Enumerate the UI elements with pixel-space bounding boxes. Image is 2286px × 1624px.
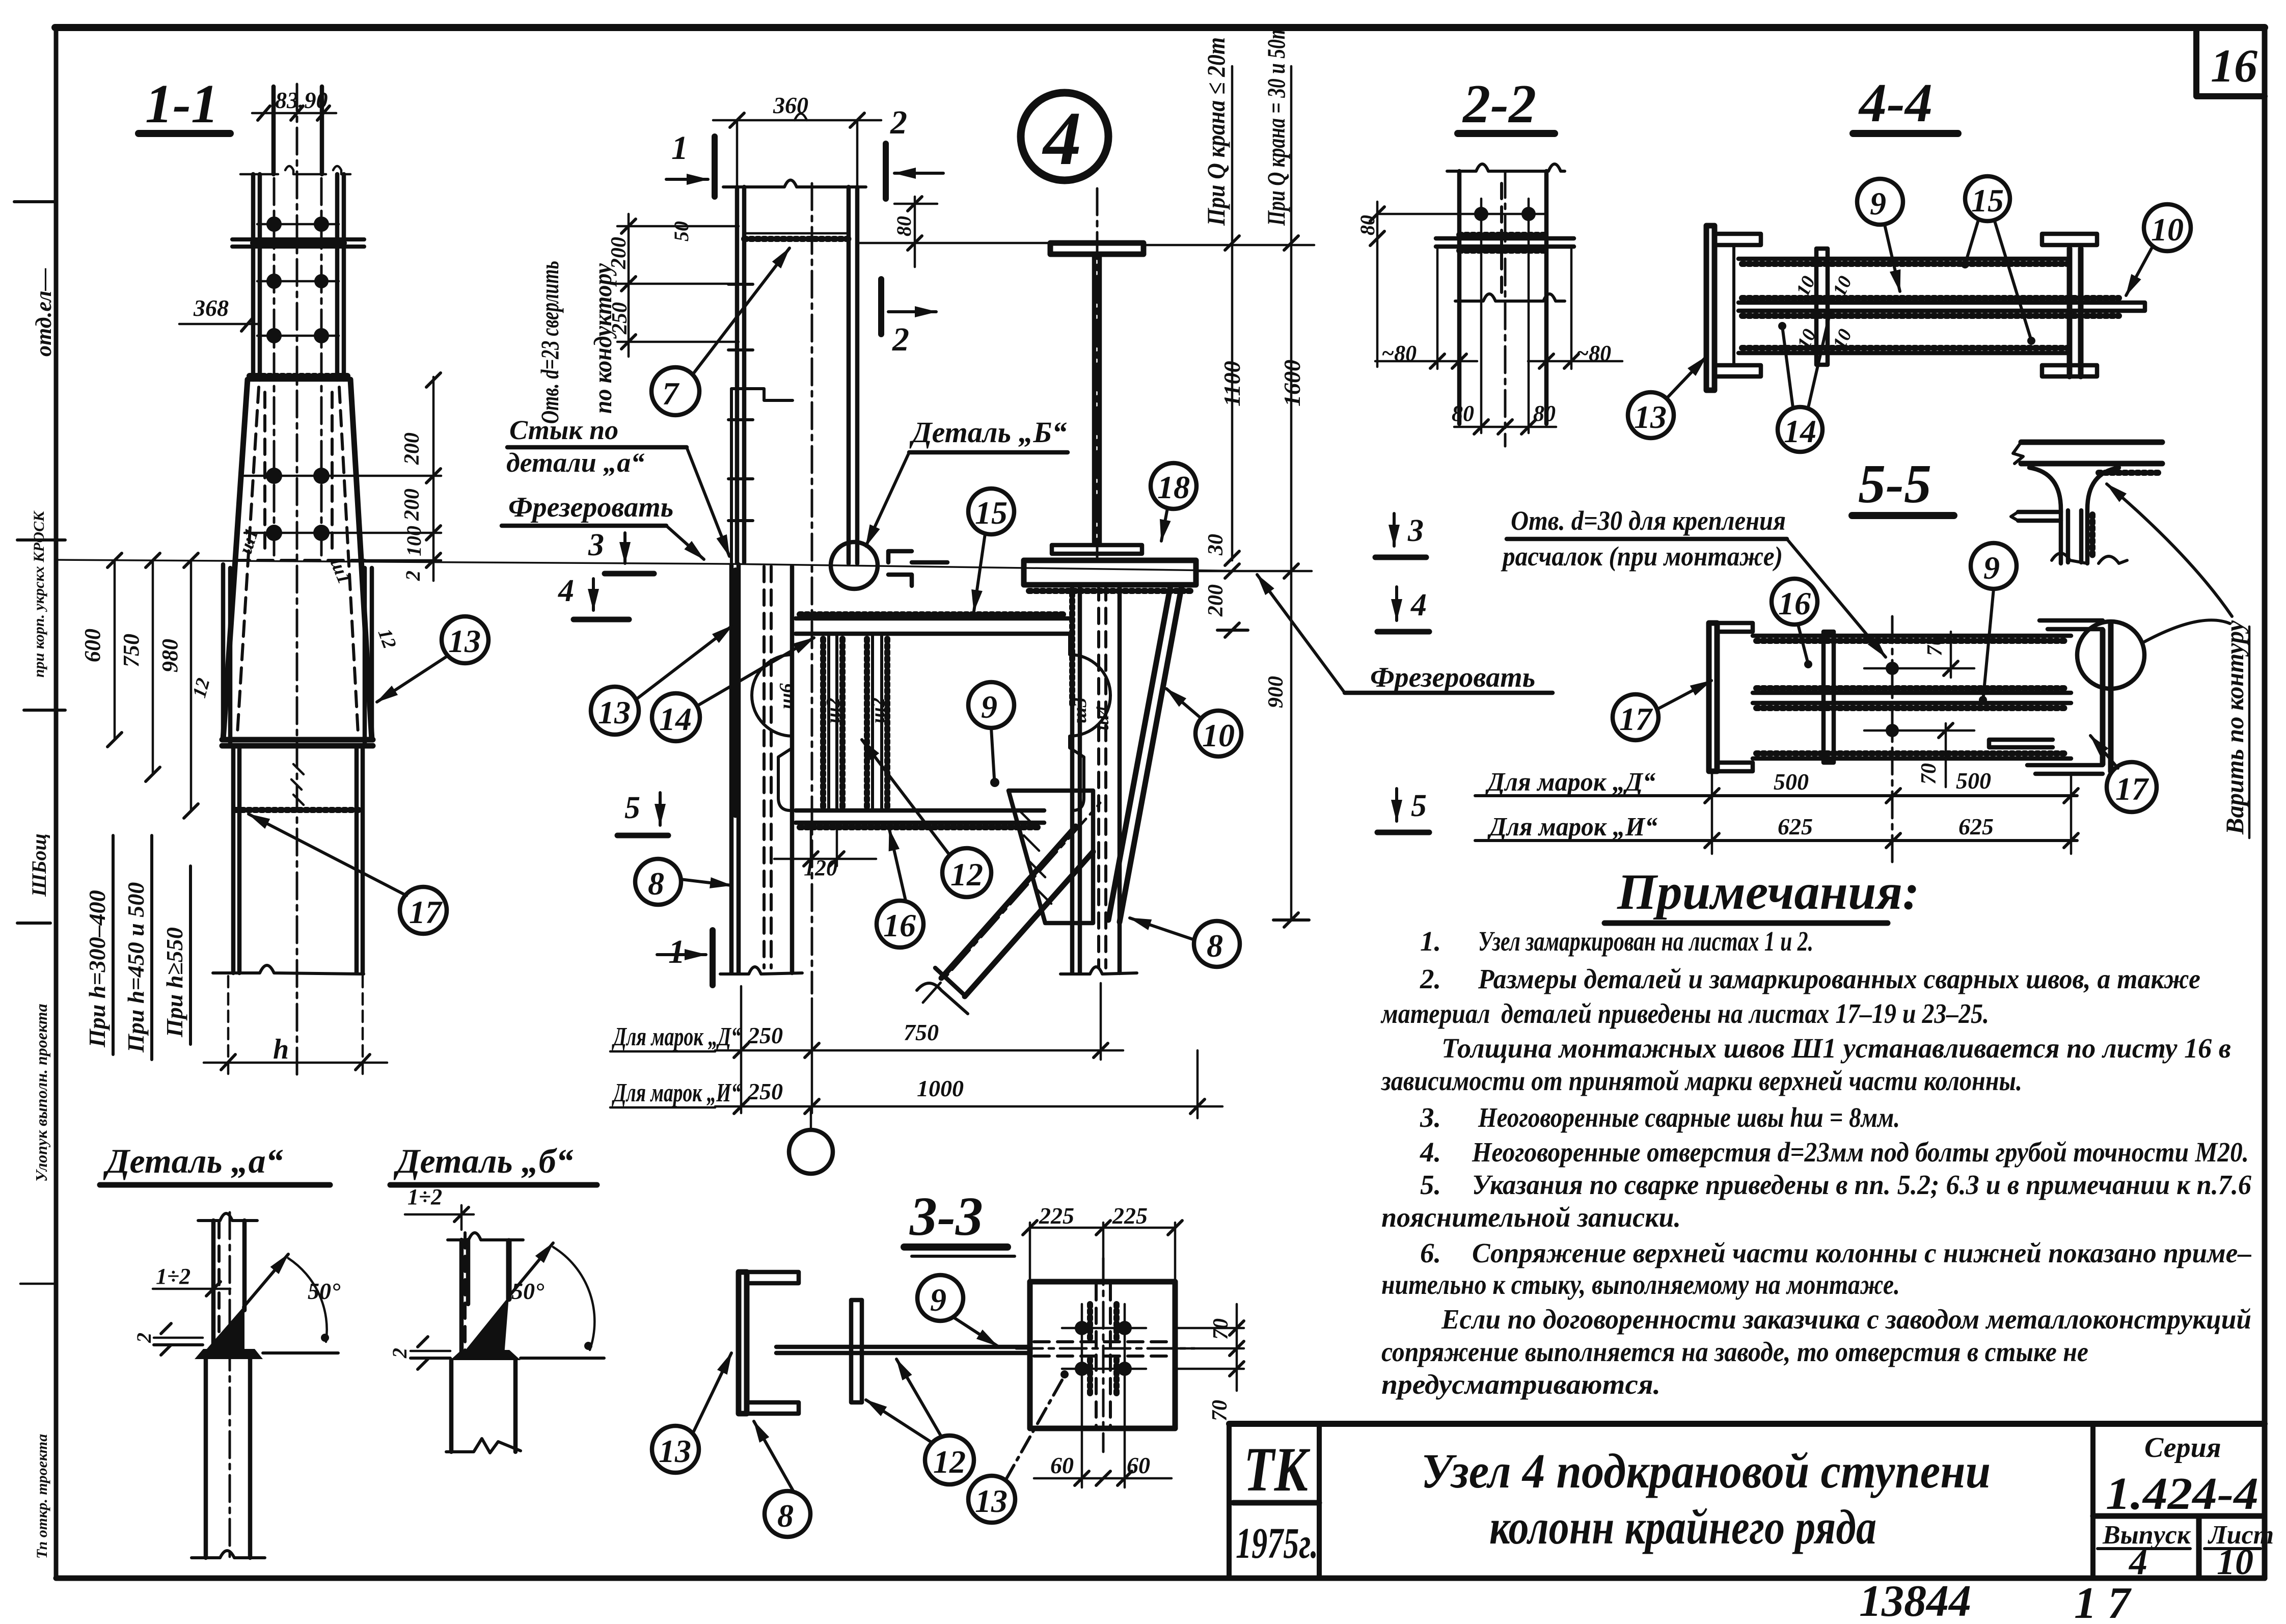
weld under cap plate [1029, 588, 1192, 594]
squiggle on 360 dim [795, 114, 807, 120]
splice weld on left column [744, 236, 849, 242]
gridline crane Q=30/50 [1290, 66, 1293, 920]
callout circle 13 (taper flange) [442, 616, 488, 663]
detail B surface line [411, 1357, 604, 1360]
callout circle 17 left [1613, 694, 1658, 740]
left column bottom flange stub [1715, 365, 1761, 376]
upper beam centerline [1096, 188, 1099, 560]
svg-text:1.: 1. [1420, 926, 1441, 957]
svg-text:h: h [273, 1034, 289, 1065]
callout circle 16 [1772, 579, 1817, 625]
svg-text:80: 80 [1356, 215, 1379, 235]
svg-text:Указания по сварке привед: Указания по сварке приведены в пп. 5.2; … [1472, 1169, 2251, 1200]
stiffener 1 pair [829, 634, 837, 810]
weld below middle plate [1742, 313, 2119, 319]
svg-text:80: 80 [892, 216, 915, 236]
otv label underline [1507, 537, 1787, 542]
svg-text:При Q крана ≤ 20т: При Q крана ≤ 20т [1202, 37, 1230, 226]
svg-text:625: 625 [1778, 814, 1813, 840]
svg-text:200: 200 [607, 237, 631, 269]
dim ticks 83,90 [258, 106, 330, 120]
dim line 750 [152, 560, 154, 774]
beam middle double line [1753, 693, 2071, 703]
svg-text:250: 250 [608, 302, 632, 335]
svg-text:80: 80 [1452, 401, 1474, 426]
svg-text:Узел 4 подкрановой ступени: Узел 4 подкрановой ступени [1421, 1444, 1991, 1498]
left column centerline [811, 183, 813, 993]
callout circle 15 [1965, 176, 2010, 221]
upper column stub flange right [320, 87, 324, 174]
section 4-4 underline [1853, 130, 1958, 137]
margin tick 4 [17, 922, 50, 925]
lower left column flange pair [731, 564, 739, 973]
row 1 ticks [734, 1043, 1108, 1058]
hatch marks above weld [291, 764, 304, 805]
weld marks on splice plate [253, 240, 344, 246]
callout circle 8 right [1194, 921, 1240, 967]
right dim chain 200/200/100/2 extension lines [357, 476, 441, 560]
svg-text:4: 4 [558, 574, 574, 608]
lower part outer right double [365, 568, 372, 744]
svg-text:1÷2: 1÷2 [407, 1184, 442, 1209]
taper right inner dashed [339, 387, 358, 734]
svg-text:ШБощ: ШБощ [28, 833, 50, 897]
plate 18 thin [1052, 545, 1142, 554]
svg-text:Деталь „б“: Деталь „б“ [393, 1142, 574, 1180]
section 5-5 underline [1852, 512, 1954, 519]
left column top cap with break [723, 180, 866, 187]
bolt row 5 [266, 525, 282, 541]
weld splice 17 on shaft [235, 807, 361, 813]
svg-text:4: 4 [2128, 1541, 2147, 1582]
TK box outer [1229, 1424, 1319, 1578]
svg-text:При h≥550: При h≥550 [161, 927, 187, 1038]
svg-text:2.: 2. [1420, 963, 1441, 994]
table row 1 line [1475, 794, 2077, 797]
diagonal brace lines [941, 826, 1093, 996]
svg-text:50: 50 [670, 221, 693, 241]
ticks 60 [1075, 1471, 1132, 1485]
break line top of splice [240, 166, 350, 174]
cap level line to gridlines [1196, 570, 1312, 573]
svg-text:17: 17 [2115, 771, 2149, 807]
vertical web right with fillet [2081, 468, 2119, 563]
bolt grid lines [1062, 1304, 1146, 1487]
seria row divider [2093, 1513, 2265, 1519]
lower shaft right double [357, 746, 363, 973]
svg-text:250: 250 [747, 1022, 783, 1048]
lower right column web dashed [1099, 585, 1106, 968]
dim h extension right [362, 976, 364, 1075]
svg-text:отд.ел—: отд.ел— [31, 268, 56, 357]
svg-text:Тп откр. троекта: Тп откр. троекта [34, 1434, 50, 1559]
svg-text:70: 70 [1923, 635, 1947, 656]
svg-text:Отв. d=30 для крепления: Отв. d=30 для крепления [1511, 505, 1786, 536]
callout circle 8 left [635, 859, 681, 905]
svg-text:Толщина монтажных швов Ш1: Толщина монтажных швов Ш1 устанавливаетс… [1441, 1033, 2231, 1064]
beam top flange [796, 618, 1070, 634]
svg-text:Серия: Серия [2144, 1432, 2221, 1464]
base plate square [1030, 1282, 1175, 1428]
svg-text:1: 1 [668, 933, 685, 970]
dim line 225/225 [1030, 1223, 1175, 1282]
top plate double line [2021, 442, 2162, 464]
callout circle 12 [925, 1436, 974, 1484]
unfinished callout circle [789, 1130, 833, 1174]
svg-text:по кондуктору: по кондуктору [588, 263, 617, 414]
svg-text:колонн крайнего ряда: колонн крайнего ряда [1489, 1500, 1876, 1554]
svg-text:8: 8 [648, 865, 664, 902]
node cap plate [1024, 560, 1196, 585]
upper column stub centerline [296, 84, 298, 1080]
right lower tab [1989, 740, 2053, 747]
svg-text:980: 980 [157, 639, 182, 672]
svg-text:Неоговоренные отверстия d=23: Неоговоренные отверстия d=23мм под болты… [1472, 1136, 2249, 1168]
svg-text:60: 60 [1050, 1452, 1074, 1478]
weld under top edge [1742, 261, 2067, 267]
dim line 368 [179, 323, 260, 326]
svg-text:2: 2 [132, 1333, 155, 1343]
left column top flange stub [1715, 234, 1761, 245]
left channel flange [1709, 623, 1717, 771]
beam top edge [1753, 634, 2071, 638]
svg-text:368: 368 [193, 295, 229, 321]
svg-text:250: 250 [747, 1078, 783, 1104]
svg-text:зависимости от принятой мар: зависимости от принятой марки верхней ча… [1380, 1065, 2022, 1096]
weld below beam bottom flange [800, 824, 1042, 830]
svg-text:13: 13 [1634, 399, 1667, 435]
left channel top stub [1717, 623, 1753, 632]
right column top flange stub [2042, 234, 2097, 245]
svg-text:70: 70 [1208, 1400, 1232, 1421]
weld on lower right column [1069, 593, 1075, 708]
svg-text:Для марок „Д“: Для марок „Д“ [612, 1022, 741, 1051]
callout circle 12 main [942, 848, 991, 897]
svg-text:Стык по: Стык по [509, 415, 618, 445]
svg-text:Улопук выполн. проекта: Улопук выполн. проекта [32, 1004, 50, 1182]
bolt left [1474, 207, 1488, 221]
callout circle 9 [1857, 179, 1903, 225]
svg-text:Сопряжение верхней части: Сопряжение верхней части колонны с нижне… [1472, 1237, 2251, 1268]
svg-text:900: 900 [1264, 676, 1288, 708]
detail A surface line [154, 1345, 338, 1353]
beam bottom edge [1753, 756, 2071, 761]
left flange line [1457, 171, 1462, 424]
svg-text:200: 200 [1204, 584, 1228, 617]
milled joint line across sheet [57, 560, 728, 564]
bolt row 3 [266, 328, 282, 343]
left column inner flange pair [849, 187, 857, 563]
dim tick 368 [241, 317, 254, 331]
upper beam web pair [1094, 254, 1100, 545]
callout circle 15 [968, 489, 1014, 534]
svg-text:70: 70 [1917, 763, 1941, 784]
svg-text:4: 4 [1042, 96, 1081, 181]
callout circle 17 (shaft weld) [400, 887, 447, 934]
weld above bottom edge [1756, 750, 2068, 756]
svg-text:13: 13 [598, 694, 631, 730]
taper left side [223, 380, 248, 740]
callout circle 7 [651, 367, 699, 415]
svg-text:225: 225 [1112, 1203, 1148, 1229]
right channel flange [2103, 624, 2111, 771]
left dims 200/250 chain line [617, 214, 739, 357]
svg-text:8: 8 [1207, 928, 1223, 964]
bottom break squiggles [2052, 553, 2127, 563]
svg-text:750: 750 [904, 1019, 939, 1045]
svg-text:2: 2 [890, 104, 907, 141]
rivet ticks on left column [728, 284, 753, 521]
ticks 30 dim [1225, 551, 1239, 578]
sheet border right [2262, 28, 2268, 1578]
svg-text:При h=450 и 500: При h=450 и 500 [123, 882, 149, 1053]
callout circle 13 [1628, 392, 1674, 438]
svg-text:70: 70 [1209, 1318, 1233, 1340]
bottom dim row 1 line [715, 1049, 1123, 1052]
brace end break [917, 983, 968, 1014]
upper column stub flange left [271, 87, 276, 174]
section 3-3 underline [904, 1243, 1008, 1251]
svg-text:5: 5 [1411, 789, 1427, 823]
right column flange plate [2070, 249, 2081, 376]
ticks 200/250 chain [621, 219, 636, 349]
callout circle 13 [968, 1476, 1015, 1523]
column bottom break line [213, 965, 364, 974]
vypusk/list divider [2196, 1516, 2202, 1578]
svg-text:10: 10 [2217, 1541, 2253, 1582]
dim line h [204, 1062, 387, 1064]
detail A angle arc [288, 1258, 327, 1342]
detail B bottom break [446, 1439, 521, 1453]
lower left column web dashed [764, 566, 771, 968]
detail A lower plate [206, 1353, 250, 1558]
row 2 extensions [1196, 1050, 1199, 1118]
dim line 600 [114, 560, 116, 740]
link line to beam flange [857, 242, 1050, 245]
detail A inner dashed [217, 1223, 221, 1345]
top break line [1447, 164, 1565, 171]
diagonal brace axis [923, 803, 1100, 1003]
middle stiffener pair [1824, 632, 1834, 763]
taper top weld line [248, 377, 350, 382]
weld teeth along right fillet [2089, 515, 2095, 558]
vypusk underline [2098, 1547, 2190, 1550]
svg-text:детали „а“: детали „а“ [506, 447, 644, 478]
svg-text:2: 2 [388, 1348, 411, 1359]
svg-text:50°: 50° [308, 1278, 341, 1304]
right dim ticks [426, 373, 441, 567]
sheet border left [54, 28, 59, 1578]
detail B top break [448, 1233, 523, 1240]
svg-text:при корп. укрскх КРОСК: при корп. укрскх КРОСК [31, 510, 47, 678]
svg-text:Узел замаркирован на листах: Узел замаркирован на листах 1 и 2. [1478, 926, 1813, 957]
leader arrow from varit po konturu [2107, 484, 2232, 616]
left channel flange [739, 1272, 747, 1414]
svg-text:200: 200 [400, 432, 424, 465]
svg-text:1100: 1100 [1219, 361, 1245, 407]
detail B bevel line 50 [509, 1243, 553, 1296]
detail A upper plate right edge [242, 1221, 247, 1310]
weld marks around web [1090, 1304, 1117, 1396]
bolt line horizontal [1377, 213, 1546, 215]
svg-text:Если по договоренности зак: Если по договоренности заказчика с завод… [1441, 1304, 2251, 1335]
svg-text:1÷2: 1÷2 [156, 1264, 190, 1289]
steep diagonal member [1108, 586, 1182, 922]
detail B zone circle [831, 542, 878, 589]
ticks 900 [1273, 564, 1309, 927]
row 2 ticks [734, 1099, 1205, 1114]
detail B gap line [411, 1350, 450, 1352]
detail A bevel line 50 [243, 1254, 288, 1307]
stepped mark near detail circle [888, 551, 947, 586]
svg-text:ш3: ш3 [1069, 697, 1091, 723]
beam bottom edge [1738, 351, 2070, 356]
lower break line [1455, 294, 1565, 301]
hidden column web vertical dashed [1096, 1285, 1110, 1426]
svg-text:30: 30 [1204, 534, 1228, 556]
callout circle 13 near details [652, 1426, 699, 1473]
gusset hatch [1019, 810, 1051, 904]
right column bottom flange stub [2042, 365, 2097, 376]
left channel bottom stub [747, 1402, 799, 1414]
weld above beam top flange [800, 611, 1067, 617]
svg-text:расчалок (при монтаже): расчалок (при монтаже) [1501, 541, 1783, 572]
detail A upper plate left edge [211, 1221, 216, 1351]
step bottom plate of taper [222, 740, 373, 746]
list underline [2205, 1547, 2261, 1550]
web scallop right [1070, 636, 1110, 810]
taper left inner dashed [237, 387, 259, 734]
svg-text:сопряжение выполняется на: сопряжение выполняется на заводе, то отв… [1381, 1336, 2088, 1367]
svg-text:1000: 1000 [917, 1075, 964, 1101]
callout circle 14 main [652, 693, 700, 741]
svg-text:пояснительной записки.: пояснительной записки. [1381, 1202, 1681, 1233]
svg-text:14: 14 [659, 701, 692, 737]
TK box divider [1233, 1500, 1319, 1506]
plate edge extensions [1437, 247, 1571, 369]
svg-text:100: 100 [402, 526, 425, 556]
svg-text:ТК: ТК [1244, 1434, 1311, 1504]
tick 200 right [1217, 623, 1248, 637]
svg-text:13: 13 [448, 623, 481, 659]
middle stiffener pair [1816, 249, 1828, 365]
right dim vertical line [432, 377, 435, 581]
svg-text:3: 3 [1407, 513, 1424, 548]
svg-text:3.: 3. [1420, 1102, 1441, 1133]
svg-text:1: 1 [671, 129, 688, 167]
callout circle 18 [1151, 463, 1196, 509]
weld teeth on flange plate [1459, 232, 1546, 238]
svg-text:Варить по контуру: Варить по контуру [2220, 620, 2249, 835]
otv leader [1787, 539, 1886, 657]
underline for varit label [2248, 627, 2251, 838]
dim h extension left [227, 976, 230, 1075]
svg-text:7: 7 [662, 375, 680, 412]
svg-text:625: 625 [1958, 814, 1994, 840]
margin tick 2 [17, 538, 65, 542]
svg-text:Примечания:: Примечания: [1617, 863, 1919, 920]
notes title underline [1604, 921, 1888, 926]
flange plate horizontal [1436, 238, 1574, 247]
weld on stiffener 2 [823, 639, 887, 807]
table row 2 line [1475, 839, 2077, 842]
bolt d [1118, 1362, 1132, 1376]
weld above middle [1756, 685, 2068, 691]
svg-text:2: 2 [401, 571, 424, 581]
svg-text:материал деталей приведены: материал деталей приведены на листах 17–… [1380, 998, 1989, 1029]
bolt hole top [1886, 662, 1899, 675]
sheet border top [55, 24, 2265, 31]
detail A bottom break [192, 1551, 265, 1558]
bolt gauge line right [320, 178, 323, 560]
left column flange plate [1706, 226, 1715, 390]
svg-text:500: 500 [1774, 769, 1809, 795]
svg-text:50°: 50° [511, 1278, 545, 1304]
svg-text:10: 10 [1202, 717, 1235, 753]
table ticks [1705, 789, 2078, 848]
dim line 83,90 [252, 112, 336, 115]
detail A title underline [100, 1182, 330, 1188]
svg-text:9: 9 [1983, 550, 2000, 586]
svg-text:16: 16 [883, 907, 916, 943]
svg-text:2-2: 2-2 [1462, 74, 1536, 134]
curved connector to corner detail [2142, 620, 2230, 643]
top plate left break [2013, 442, 2023, 464]
sheet border bottom [56, 1576, 2265, 1581]
svg-text:15: 15 [975, 495, 1008, 531]
svg-text:4-4: 4-4 [1858, 73, 1933, 133]
svg-text:ш2: ш2 [823, 697, 844, 723]
svg-text:80: 80 [1533, 401, 1556, 426]
lower part outer left double [223, 564, 230, 744]
svg-text:При h=300–400: При h=300–400 [84, 890, 110, 1048]
bolt row 2 [266, 274, 282, 289]
svg-text:10: 10 [2151, 211, 2184, 248]
svg-text:18: 18 [1157, 469, 1190, 505]
svg-text:225: 225 [1039, 1203, 1074, 1229]
svg-text:1.424-4: 1.424-4 [2106, 1469, 2258, 1519]
svg-text:500: 500 [1956, 768, 1991, 794]
detail B lower plate [451, 1360, 515, 1452]
callout circle 13 main [591, 687, 639, 735]
splice outer flange left [253, 174, 260, 380]
svg-text:Для марок „И“: Для марок „И“ [1487, 813, 1657, 842]
bolt hole bottom [1886, 724, 1899, 737]
callout circle 8 [765, 1491, 810, 1537]
svg-text:12: 12 [950, 856, 983, 892]
title block top line [1229, 1421, 2265, 1427]
svg-text:ш2: ш2 [867, 697, 889, 723]
svg-text:нительно к стыку, выполняем: нительно к стыку, выполняемому на монтаж… [1381, 1269, 1900, 1300]
seria box divider [2090, 1424, 2095, 1578]
svg-text:9: 9 [1870, 185, 1886, 222]
splice outer flange right [337, 174, 344, 380]
dim ticks 360 [730, 113, 864, 127]
svg-text:200: 200 [400, 489, 424, 521]
right flange line [1544, 171, 1549, 424]
dim line 980 [190, 560, 193, 811]
margin tick 3 [24, 709, 65, 712]
right channel bottom stub [2027, 765, 2103, 774]
right channel top stub [2039, 620, 2103, 629]
table verticals [1712, 772, 2071, 854]
bolt row 4 [266, 468, 282, 484]
svg-text:9: 9 [930, 1282, 946, 1318]
bolt a [1075, 1321, 1089, 1335]
web opening rounded outline [752, 636, 793, 810]
bolt c [1075, 1362, 1089, 1376]
short plate break [2011, 512, 2018, 521]
